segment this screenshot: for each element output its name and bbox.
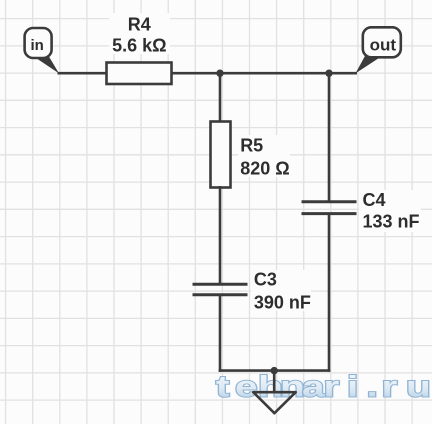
- wire: node C down to ground: [273, 371, 276, 393]
- port in: [25, 28, 59, 73]
- port out: [356, 27, 401, 73]
- svg-text:C3: C3: [254, 269, 277, 289]
- junction node B (out / C4): [325, 70, 332, 77]
- wire: C3 down to bottom rail: [219, 295, 222, 372]
- wire: bottom rail: [219, 369, 331, 372]
- wire: node A down to R5: [219, 73, 222, 123]
- wire: top rail from in to out: [58, 72, 358, 75]
- wire: C4 down to bottom rail: [328, 214, 331, 372]
- label R4 5.6 kΩ: [109, 13, 170, 55]
- svg-text:in: in: [31, 37, 44, 54]
- wire: R5 down to C3: [219, 186, 222, 284]
- svg-text:R4: R4: [128, 15, 151, 35]
- resistor R4: [107, 63, 172, 85]
- svg-text:133 nF: 133 nF: [363, 212, 420, 232]
- svg-text:C4: C4: [363, 190, 386, 210]
- capacitor C4: [302, 202, 357, 214]
- label C3 390 nF: [251, 269, 311, 312]
- svg-text:390 nF: 390 nF: [254, 292, 311, 312]
- svg-text:out: out: [370, 36, 397, 55]
- svg-text:820 Ω: 820 Ω: [240, 158, 289, 178]
- junction node A (R4 / R5): [216, 70, 223, 77]
- label C4 133 nF: [359, 190, 421, 232]
- wire: node B down to C4: [328, 73, 331, 202]
- resistor R5: [211, 122, 231, 188]
- capacitor C3: [193, 284, 248, 295]
- ground: [253, 392, 295, 413]
- label R5 820 Ω: [238, 135, 290, 178]
- watermark tehnari.ru: [216, 370, 431, 403]
- junction node C (ground): [271, 367, 278, 374]
- svg-text:R5: R5: [240, 136, 263, 156]
- svg-text:5.6 kΩ: 5.6 kΩ: [112, 35, 166, 55]
